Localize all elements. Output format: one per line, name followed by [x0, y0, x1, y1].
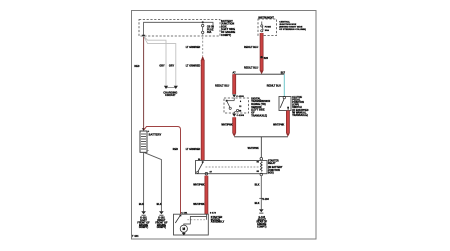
wire WHT/PNK thick from TR sensor [232, 117, 236, 136]
arrow to charging circuit 1 [164, 86, 168, 89]
wire fuse output (dashed, in junction box) [202, 34, 204, 56]
svg-text:-: - [148, 150, 149, 153]
wire junction line (WHT/PNK bus) [234, 136, 288, 138]
svg-text:BOX): BOX) [268, 172, 274, 174]
wire GRY branch 2 to charging circuit [144, 36, 176, 86]
svg-text:WHT/PNK: WHT/PNK [273, 124, 284, 126]
svg-text:30A: 30A [265, 29, 270, 32]
ground G101 symbol [141, 211, 146, 215]
svg-text:BLK: BLK [157, 204, 162, 206]
svg-text:COMPT): COMPT) [221, 34, 231, 37]
TR sensor switch contacts [226, 98, 239, 113]
link line between charging arrows [167, 87, 175, 89]
svg-text:BLK: BLK [255, 185, 260, 187]
svg-text:C-1203: C-1203 [237, 115, 245, 117]
node (fuse tap dot) [202, 21, 204, 23]
splice S26 [260, 56, 262, 58]
starter motor box [174, 214, 209, 235]
svg-text:RELAY: RELAY [268, 162, 276, 165]
starter solenoid link (dashed) [187, 219, 206, 221]
svg-text:30: 30 [198, 159, 200, 161]
bus bar wire inside battery junction box [144, 22, 213, 36]
svg-text:COMPT): COMPT) [139, 227, 149, 229]
svg-text:S 173: S 173 [210, 213, 217, 215]
wire junction line A7-B17 [234, 73, 284, 75]
wire RED/LT BLU (cyan line) to CPP switch [283, 74, 285, 96]
charging circuit label [163, 91, 177, 97]
svg-text:S26: S26 [264, 58, 269, 60]
svg-text:PEDAL: PEDAL [292, 98, 301, 101]
ground G102 symbol [159, 211, 164, 215]
starter relay coil terminal [260, 158, 263, 161]
wire GRY branch 1 to charging circuit [144, 36, 166, 86]
digital TR sensor box (dashed) [224, 98, 249, 113]
svg-text:RED/LT BLU: RED/LT BLU [215, 86, 229, 88]
svg-text:LT GRN/RED: LT GRN/RED [186, 66, 201, 68]
svg-text:M: M [182, 227, 185, 231]
starter name label [211, 216, 225, 224]
svg-text:BATTERY: BATTERY [149, 132, 162, 136]
svg-text:87: 87 [210, 171, 212, 173]
svg-text:COMPT): COMPT) [257, 227, 267, 229]
node battery positive (connector triangle) [142, 128, 146, 131]
svg-text:OF STEERING COLUMN): OF STEERING COLUMN) [279, 29, 306, 31]
splice S-163 tick [259, 197, 263, 199]
svg-text:FUSE: FUSE [265, 26, 272, 28]
svg-text:RED: RED [134, 66, 139, 68]
wire RED/LT BLU thick branch to TR sensor [232, 74, 236, 94]
relay pin labels [198, 159, 259, 173]
svg-text:TRANSAXLE): TRANSAXLE) [292, 114, 308, 117]
svg-text:WHT/PNK: WHT/PNK [221, 124, 232, 126]
battery B1 [140, 131, 147, 152]
svg-text:RED/LT BLU: RED/LT BLU [244, 47, 258, 49]
wire LT GRN/RED thick to starter relay coil supply [201, 56, 205, 161]
svg-text:TRANSAXLE): TRANSAXLE) [251, 114, 267, 117]
outer border frame [132, 11, 317, 240]
relay coil winding [261, 162, 263, 172]
wire inside starter (relay terminal feed) [184, 214, 207, 225]
ignition switch box (dashed, central junction box) [258, 19, 277, 36]
starter relay name label [268, 160, 283, 175]
svg-text:WHT/PNK: WHT/PNK [193, 185, 204, 187]
wire BLK battery negative to ground G102 [144, 152, 162, 211]
wire WHT/PNK thick from CPP switch [286, 111, 290, 137]
wire WHT/PNK drop to starter relay coil [260, 137, 262, 158]
svg-text:RED: RED [173, 148, 178, 151]
fuse value label [207, 26, 215, 34]
svg-text:W/ MANUAL: W/ MANUAL [292, 111, 307, 114]
svg-text:4: 4 [240, 100, 242, 103]
relay mechanical link (dashed) [206, 166, 260, 168]
svg-text:GRY: GRY [169, 65, 175, 68]
wire RED/LT BLU thick from ignition switch [260, 33, 264, 74]
svg-text:12: 12 [239, 106, 241, 108]
svg-text:LT GRN/RED: LT GRN/RED [186, 47, 201, 49]
svg-text:RED/LT BLU: RED/LT BLU [244, 67, 258, 69]
ground G102 label [155, 218, 168, 230]
svg-text:85: 85 [257, 171, 259, 173]
CPP switch box [279, 97, 291, 111]
svg-text:(IN BATTERY: (IN BATTERY [268, 166, 283, 169]
connector C-1203 (arrow into TR sensor) [232, 94, 236, 97]
svg-text:T 434: T 434 [132, 235, 139, 238]
connector C-1203 (arrow out of TR sensor) [232, 114, 236, 117]
svg-text:ASSEMBLY: ASSEMBLY [211, 221, 225, 224]
wire WHT/PNK thick relay to starter [204, 176, 208, 214]
svg-text:3B: 3B [239, 110, 242, 112]
svg-text:CIRCUIT: CIRCUIT [165, 94, 176, 97]
battery junction box (dashed outline) [139, 20, 220, 37]
central junction box name label [279, 21, 306, 32]
ground G104 label [256, 216, 267, 229]
fuse value label in CJB [265, 26, 272, 32]
svg-text:WHT/PNK: WHT/PNK [248, 148, 259, 150]
svg-text:WHT/PNK: WHT/PNK [193, 204, 204, 206]
svg-text:86: 86 [257, 161, 259, 163]
svg-text:C 191: C 191 [181, 213, 188, 215]
svg-text:STARTER: STARTER [268, 160, 279, 163]
node A (main junction at battery feed, connector triangle) [142, 35, 146, 38]
wire RED battery cable to starter B+ [144, 127, 180, 215]
svg-text:BLK: BLK [255, 203, 260, 205]
fuse F1 (CB 30) [202, 24, 204, 33]
svg-text:INSTRUMENT: INSTRUMENT [258, 17, 274, 19]
relay ground terminal [260, 173, 263, 176]
starter solenoid contact arm [175, 215, 181, 223]
CPP switch name label [292, 97, 308, 117]
CPP switch contacts [280, 96, 289, 110]
wire RED battery feed (junction to battery +) [143, 37, 145, 129]
starter internal ground [183, 231, 185, 234]
wire solenoid link vertical [205, 217, 207, 220]
svg-text:BLK: BLK [139, 204, 144, 206]
relay contact arm [197, 161, 204, 173]
ignition switch S1 contacts [261, 22, 264, 32]
starter relay K1 box [196, 161, 268, 174]
wire BLK relay coil to ground [260, 176, 262, 210]
svg-text:CENTRAL: CENTRAL [279, 21, 290, 24]
svg-text:LT GRN/RED: LT GRN/RED [186, 149, 201, 151]
svg-text:40A: 40A [207, 31, 212, 34]
starter motor M1 [180, 225, 187, 232]
svg-text:RED/LT BLU: RED/LT BLU [267, 86, 281, 88]
ground G101 label [137, 218, 150, 230]
battery junction box name label [221, 20, 235, 37]
wire BLK battery negative to ground G101 [143, 152, 145, 211]
svg-text:GRY: GRY [159, 65, 165, 68]
svg-text:COMPT): COMPT) [157, 227, 167, 229]
relay output terminal (to starter) [205, 172, 208, 175]
svg-text:S-163: S-163 [262, 199, 269, 201]
arrow to charging circuit 2 [174, 86, 178, 89]
ground G104 symbol [259, 209, 264, 213]
svg-text:B17: B17 [281, 73, 286, 75]
TR sensor name label [251, 97, 270, 117]
TR sensor pin labels [239, 100, 242, 113]
